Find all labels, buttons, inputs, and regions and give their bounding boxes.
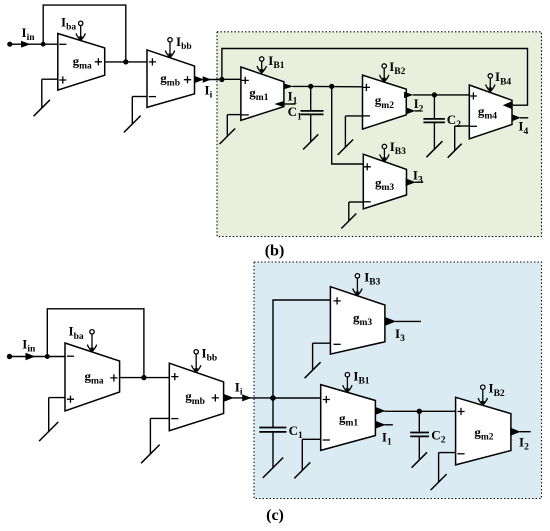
svg-text:Iba: Iba (69, 324, 84, 342)
svg-text:Ii: Ii (205, 83, 213, 101)
svg-text:Ibb: Ibb (176, 34, 192, 52)
svg-text:Ibb: Ibb (202, 345, 218, 363)
svg-text:Iin: Iin (22, 25, 36, 43)
svg-text:Iin: Iin (22, 337, 36, 355)
svg-text:(b): (b) (265, 243, 285, 260)
svg-text:Iba: Iba (61, 14, 76, 32)
svg-text:(c): (c) (266, 507, 284, 524)
svg-text:Ii: Ii (235, 379, 243, 397)
